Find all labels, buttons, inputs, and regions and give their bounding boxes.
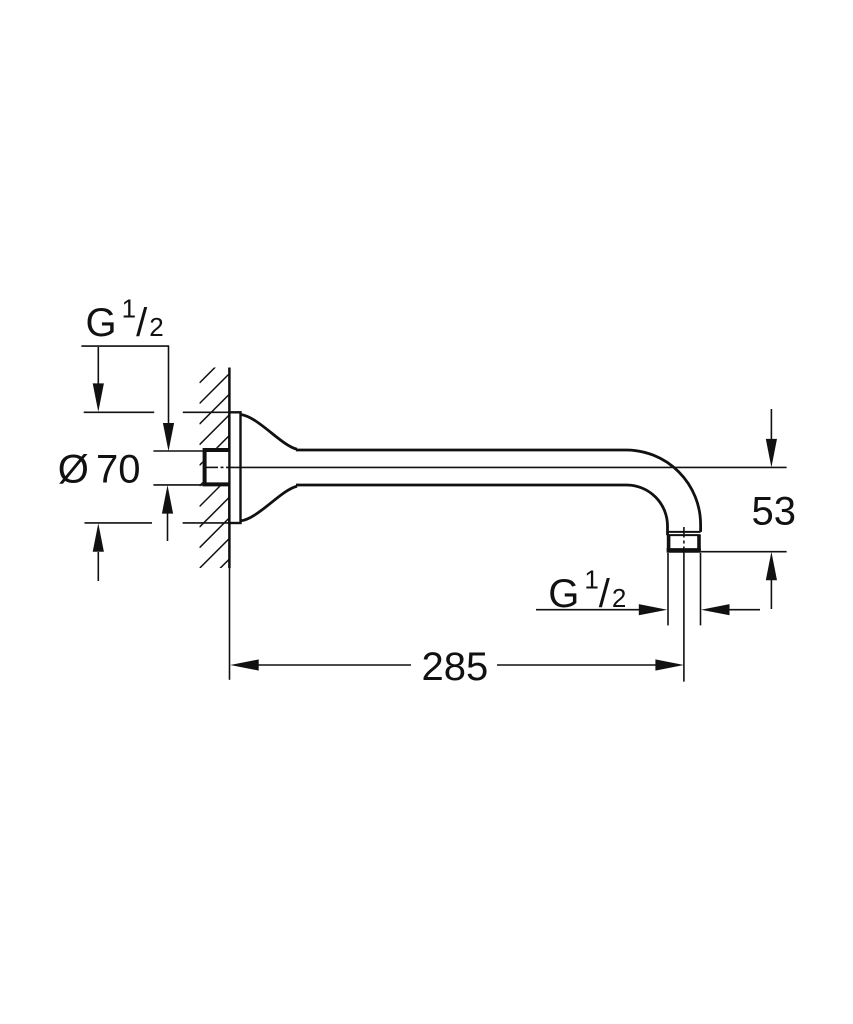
svg-text:G1/2: G1/2 xyxy=(548,565,626,616)
extension line thread top xyxy=(153,450,203,452)
flange plate xyxy=(229,412,240,523)
flange trumpet top curve xyxy=(241,415,298,450)
dim Ø70: bottom arrowhead xyxy=(93,523,104,552)
outlet ring collar line 2 xyxy=(667,534,701,536)
outlet thread block right edge xyxy=(697,535,701,550)
svg-text:G1/2: G1/2 xyxy=(86,293,164,344)
extension line thread bottom xyxy=(153,484,203,486)
extension lines below outlet xyxy=(667,553,669,625)
extension line right of outlet bottom xyxy=(701,551,787,553)
trumpet neck steps xyxy=(296,448,299,452)
svg-text:Ø 70: Ø 70 xyxy=(58,448,141,492)
svg-text:53: 53 xyxy=(752,490,797,534)
dim G1/2 top: underline xyxy=(81,345,169,347)
vertical centerline of outlet xyxy=(683,527,685,682)
dim 53: top arrowhead xyxy=(766,439,777,468)
dim Ø70: bottom arrow xyxy=(97,552,99,581)
wall line xyxy=(228,368,231,569)
dim G1/2 bottom: right line + arrow xyxy=(729,609,760,611)
dim 285 right arrowhead xyxy=(655,659,684,670)
horizontal centerline xyxy=(205,466,787,468)
extension line flange bottom xyxy=(85,522,231,524)
dim 285 line xyxy=(258,664,656,666)
pipe top outline with outer bend xyxy=(296,450,701,532)
dim 53: top arrow xyxy=(770,409,772,440)
dim Ø70: top arrow xyxy=(97,347,99,384)
flange trumpet bottom curve xyxy=(241,486,298,521)
dim G1/2 top: leader down to thread xyxy=(168,346,170,425)
outlet ring collar line 1 xyxy=(667,531,701,533)
dim G1/2 top: lower arrow xyxy=(167,513,169,541)
wall extension line (285 dim) xyxy=(229,568,231,680)
dim 53: bottom arrow xyxy=(770,580,772,609)
pipe bottom outline with inner bend xyxy=(296,485,668,535)
dim G1/2 top: upper arrowhead xyxy=(163,423,174,451)
wall thread socket G1/2 xyxy=(203,448,230,486)
dim G1/2 bottom: left line + arrow xyxy=(536,609,640,611)
dim G1/2 bottom: right-pointing arrowhead xyxy=(639,604,668,615)
outlet thread block left edge xyxy=(667,535,671,550)
dim G1/2 top: lower arrowhead xyxy=(162,485,173,513)
dim Ø70: top arrowhead xyxy=(93,383,104,412)
dim 285 left arrowhead xyxy=(230,659,259,670)
outlet thread block bottom edge xyxy=(667,548,701,553)
extension line flange top xyxy=(84,411,230,413)
svg-text:285: 285 xyxy=(422,645,489,689)
dim 53: bottom arrowhead xyxy=(766,552,777,581)
wall hatching xyxy=(200,353,230,589)
dim G1/2 bottom: left-pointing arrowhead xyxy=(701,604,730,615)
